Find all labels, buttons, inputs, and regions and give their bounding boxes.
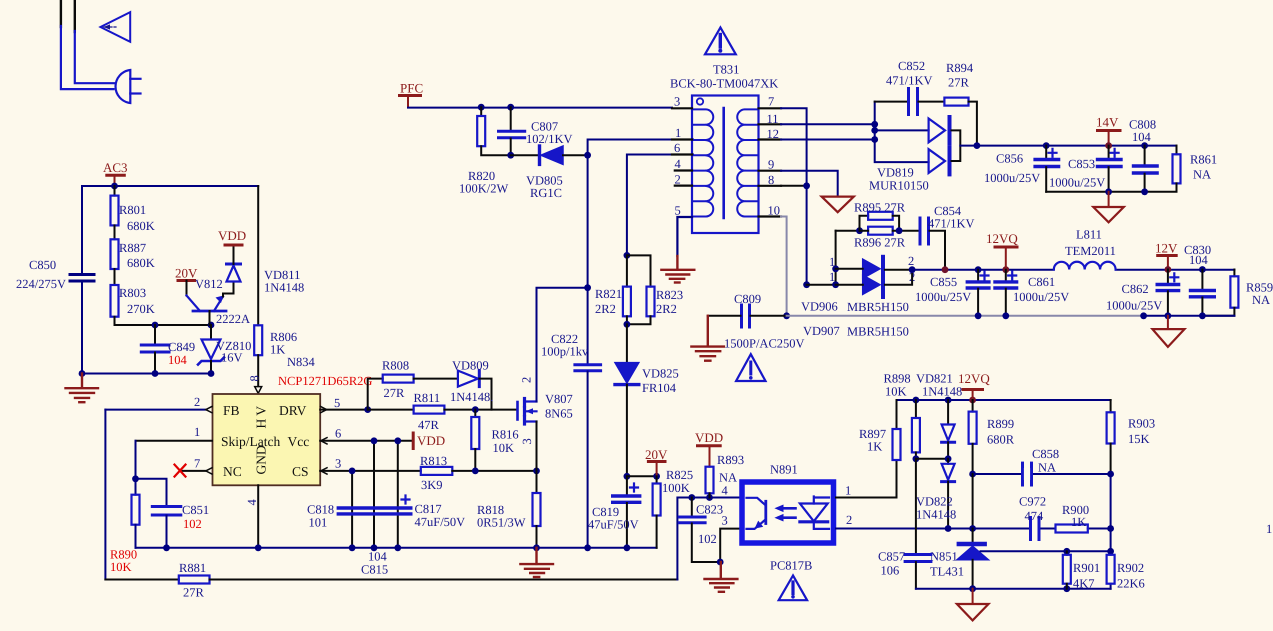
svg-text:1000u/25V: 1000u/25V xyxy=(1013,290,1069,304)
capacitor C972 xyxy=(1029,518,1032,540)
svg-text:C852: C852 xyxy=(898,59,925,73)
svg-text:R902: R902 xyxy=(1117,561,1144,575)
opto transistor xyxy=(747,498,766,505)
svg-text:2: 2 xyxy=(846,513,852,527)
ground 14V rail (triangle) xyxy=(1108,192,1110,207)
wire 12VQ top rail xyxy=(897,399,1111,401)
svg-text:8: 8 xyxy=(248,375,262,381)
node C849 top xyxy=(152,322,159,329)
svg-text:2R2: 2R2 xyxy=(656,302,677,316)
svg-text:Vcc: Vcc xyxy=(288,434,310,449)
resistor R806 xyxy=(254,325,262,355)
capacitor C818 column xyxy=(351,471,353,548)
capacitor C809 xyxy=(740,305,743,327)
opto light arrows xyxy=(779,507,796,510)
pin 5 stub to ground xyxy=(677,217,692,256)
svg-text:680R: 680R xyxy=(987,433,1015,447)
wire V807 drain xyxy=(537,288,588,402)
shared capacitor plates C818/C815/C817 xyxy=(338,506,411,509)
resistor R881 xyxy=(105,579,178,581)
svg-text:2: 2 xyxy=(908,254,914,268)
pin 10 stub xyxy=(759,215,782,217)
svg-text:VD821: VD821 xyxy=(916,372,953,386)
opto LED xyxy=(800,504,828,522)
transistor V812 xyxy=(193,310,226,313)
svg-text:GND: GND xyxy=(254,445,269,474)
wire bottom GND rail xyxy=(136,547,657,549)
svg-text:N891: N891 xyxy=(770,463,798,477)
svg-text:DRV: DRV xyxy=(279,403,307,418)
wire R801-R887 xyxy=(114,225,116,239)
svg-text:47uF/50V: 47uF/50V xyxy=(415,515,466,529)
svg-text:C972: C972 xyxy=(1019,495,1046,509)
capacitor C849 xyxy=(154,325,156,344)
svg-text:2: 2 xyxy=(520,377,534,383)
svg-text:R898: R898 xyxy=(884,372,911,386)
wire opto pin 1 to R897 xyxy=(836,460,897,498)
svg-text:V807: V807 xyxy=(545,392,573,406)
svg-text:1000u/25V: 1000u/25V xyxy=(984,171,1040,185)
wire R806 to pin 8 xyxy=(257,355,259,386)
svg-text:104: 104 xyxy=(1189,253,1209,267)
resistor R808 branch xyxy=(368,379,383,410)
wire R881 riser to pin4 row xyxy=(677,498,739,580)
capacitor C819 xyxy=(626,476,628,495)
svg-text:12VQ: 12VQ xyxy=(958,371,990,386)
wire R803 bottom row xyxy=(115,317,212,325)
svg-text:12VQ: 12VQ xyxy=(986,231,1018,246)
capacitor C850 xyxy=(70,273,94,276)
wire AC3 top rail xyxy=(82,185,258,187)
svg-text:2R2: 2R2 xyxy=(595,302,616,316)
plug P1 xyxy=(116,70,131,103)
diode VD809 xyxy=(458,371,478,387)
pin 11 stub xyxy=(759,123,782,125)
svg-text:L811: L811 xyxy=(1076,228,1102,242)
svg-text:27R: 27R xyxy=(948,76,970,90)
ground 12V return (triangle) xyxy=(1167,316,1169,329)
svg-text:V812: V812 xyxy=(195,277,223,291)
zener VZ810 xyxy=(210,325,212,339)
resistor R823 xyxy=(627,255,651,286)
svg-text:100K/2W: 100K/2W xyxy=(459,182,509,196)
svg-text:680K: 680K xyxy=(127,219,155,233)
svg-text:8N65: 8N65 xyxy=(545,407,573,421)
warning triangle above T831 xyxy=(705,28,736,55)
svg-text:R861: R861 xyxy=(1190,153,1217,167)
ground pin 5 xyxy=(661,256,694,283)
svg-text:C850: C850 xyxy=(29,258,56,272)
resistor R890 xyxy=(135,479,137,495)
TL431 N851 xyxy=(972,529,974,542)
svg-text:104: 104 xyxy=(1132,130,1152,144)
capacitor C854 xyxy=(919,218,922,244)
svg-text:HV: HV xyxy=(254,403,269,429)
svg-text:R803: R803 xyxy=(119,286,146,300)
node 20V row left xyxy=(624,473,631,480)
capacitor C858 xyxy=(1021,463,1024,485)
svg-text:1N4148: 1N4148 xyxy=(916,508,956,522)
svg-text:CS: CS xyxy=(292,464,309,479)
diode VD805 xyxy=(511,154,538,156)
wire opto pin 2 row xyxy=(836,528,1111,530)
resistor R903 xyxy=(1110,400,1112,412)
svg-text:R899: R899 xyxy=(987,417,1014,431)
svg-text:C815: C815 xyxy=(361,563,388,577)
wire tie column to lower anode xyxy=(875,102,929,163)
node VD805 junction xyxy=(584,152,591,159)
svg-text:VD822: VD822 xyxy=(916,495,953,509)
wire anode tie column xyxy=(835,231,837,285)
wire pin 7 down to pin 8 xyxy=(781,108,807,284)
svg-text:1000u/25V: 1000u/25V xyxy=(1049,176,1105,190)
svg-text:12V: 12V xyxy=(1155,241,1178,256)
svg-text:1: 1 xyxy=(675,126,681,140)
pin 1 stub xyxy=(672,138,692,140)
capacitor C823 xyxy=(691,498,693,517)
svg-text:104: 104 xyxy=(368,550,388,564)
optocoupler N891 box xyxy=(742,482,834,543)
core xyxy=(722,108,725,218)
svg-text:7: 7 xyxy=(768,95,774,109)
svg-text:MUR10150: MUR10150 xyxy=(869,179,929,193)
svg-text:471/1KV: 471/1KV xyxy=(928,217,975,231)
svg-text:FR104: FR104 xyxy=(642,381,677,395)
svg-text:R808: R808 xyxy=(382,359,409,373)
svg-text:NA: NA xyxy=(1252,293,1270,307)
svg-text:10: 10 xyxy=(768,204,781,218)
wire pin 6 column xyxy=(627,155,693,256)
svg-text:R896 27R: R896 27R xyxy=(854,236,906,250)
svg-text:MBR5H150: MBR5H150 xyxy=(847,325,909,339)
svg-text:14V: 14V xyxy=(1096,115,1119,130)
svg-text:1K: 1K xyxy=(270,343,285,357)
capacitor C815 column xyxy=(373,441,375,548)
resistor R895 xyxy=(836,230,860,232)
capacitor C862 xyxy=(1167,270,1169,284)
wire mains line 2 blue xyxy=(75,31,115,83)
wire FB loop left column xyxy=(104,410,106,580)
svg-text:16V: 16V xyxy=(221,351,243,365)
diode VD825 xyxy=(626,324,628,362)
svg-text:C809: C809 xyxy=(734,292,761,306)
svg-text:VD819: VD819 xyxy=(877,166,914,180)
capacitor C817 column xyxy=(397,441,399,548)
svg-text:NC: NC xyxy=(223,464,242,479)
svg-text:BCK-80-TM0047XK: BCK-80-TM0047XK xyxy=(670,77,778,91)
wire pin 12 xyxy=(781,139,875,141)
svg-text:2: 2 xyxy=(194,395,200,409)
pin 8 stub xyxy=(759,185,782,187)
svg-text:6: 6 xyxy=(335,427,341,441)
svg-text:270K: 270K xyxy=(127,302,155,316)
svg-text:1500P/AC250V: 1500P/AC250V xyxy=(724,337,805,351)
svg-text:R801: R801 xyxy=(119,203,146,217)
svg-text:3K9: 3K9 xyxy=(421,478,443,492)
wire right column xyxy=(1110,474,1112,589)
pin 3 CS wire xyxy=(320,470,421,472)
wire junction up to pin 1 xyxy=(588,140,693,156)
svg-text:T831: T831 xyxy=(713,63,739,77)
svg-text:100p/1kv: 100p/1kv xyxy=(541,345,589,359)
svg-text:C817: C817 xyxy=(415,502,442,516)
svg-text:102: 102 xyxy=(698,532,717,546)
resistor R887 xyxy=(111,239,119,269)
warning triangle near C809 xyxy=(736,354,765,381)
svg-text:R895 27R: R895 27R xyxy=(854,201,906,215)
svg-text:9: 9 xyxy=(768,158,774,172)
svg-text:12: 12 xyxy=(767,127,780,141)
resistor R821 xyxy=(626,255,628,286)
ground C823 xyxy=(705,562,738,592)
svg-text:R887: R887 xyxy=(119,241,146,255)
resistor R893 xyxy=(706,467,714,494)
svg-text:10K: 10K xyxy=(110,560,132,574)
wire PFC rail to pin 3 xyxy=(408,107,672,109)
svg-text:R821: R821 xyxy=(595,287,622,301)
wire R898 to diode node xyxy=(916,458,948,460)
node R816 top xyxy=(472,406,479,413)
wire AC3 bottom rail xyxy=(82,373,211,375)
svg-text:102/1KV: 102/1KV xyxy=(526,132,573,146)
svg-text:NA: NA xyxy=(1038,461,1056,475)
inductor L811 xyxy=(1054,262,1116,270)
svg-text:4: 4 xyxy=(245,499,259,506)
svg-text:102: 102 xyxy=(183,517,202,531)
svg-text:FB: FB xyxy=(223,403,240,418)
pin 4 stub xyxy=(675,169,692,171)
wire pin 10 column xyxy=(781,217,787,316)
ground below AC3 rail xyxy=(66,374,99,403)
svg-text:15K: 15K xyxy=(1128,432,1150,446)
svg-text:VD825: VD825 xyxy=(642,367,679,381)
svg-text:MBR5H150: MBR5H150 xyxy=(847,300,909,314)
wire to C851 xyxy=(136,479,167,506)
pin 7 NC wire with red X xyxy=(180,470,206,472)
svg-text:1: 1 xyxy=(1266,522,1272,536)
svg-text:NCP1271D65R2G: NCP1271D65R2G xyxy=(278,374,372,388)
svg-text:27R: 27R xyxy=(183,586,205,600)
resistor R899 xyxy=(972,400,974,412)
node DRV xyxy=(364,406,371,413)
svg-text:3: 3 xyxy=(674,95,680,109)
svg-text:3: 3 xyxy=(520,438,534,444)
pin 3 stub xyxy=(672,107,692,109)
svg-text:VD809: VD809 xyxy=(452,359,489,373)
svg-text:1: 1 xyxy=(845,484,851,498)
pin 7 stub xyxy=(759,107,782,109)
ground main GND rail xyxy=(520,548,553,577)
svg-text:22K6: 22K6 xyxy=(1117,577,1145,591)
svg-text:680K: 680K xyxy=(127,256,155,270)
wire mains line 1 (black top) xyxy=(60,0,62,27)
svg-text:4K7: 4K7 xyxy=(1073,577,1095,591)
svg-text:10K: 10K xyxy=(885,385,907,399)
svg-text:R894: R894 xyxy=(946,61,974,75)
pin 2 FB wire xyxy=(105,409,205,411)
svg-text:R901: R901 xyxy=(1073,561,1100,575)
wire TL431 ref row xyxy=(981,550,1111,552)
svg-text:5: 5 xyxy=(675,204,681,218)
svg-text:11: 11 xyxy=(767,112,779,126)
capacitor C853 xyxy=(1108,146,1110,159)
svg-text:R816: R816 xyxy=(492,428,519,442)
resistor R901 xyxy=(1066,551,1068,555)
svg-text:VDD: VDD xyxy=(695,430,723,445)
svg-text:RG1C: RG1C xyxy=(530,186,562,200)
svg-text:R823: R823 xyxy=(656,288,683,302)
wire C858 row xyxy=(973,473,1111,475)
svg-text:1N4148: 1N4148 xyxy=(264,281,304,295)
svg-text:N851: N851 xyxy=(930,550,958,564)
svg-text:C857: C857 xyxy=(878,550,905,564)
svg-text:NA: NA xyxy=(719,471,737,485)
ground C809 xyxy=(691,316,724,361)
svg-text:2222A: 2222A xyxy=(216,312,250,326)
capacitor C855 xyxy=(977,270,979,281)
svg-text:1N4148.: 1N4148. xyxy=(450,390,493,404)
svg-text:1N4148: 1N4148 xyxy=(922,385,962,399)
svg-text:1: 1 xyxy=(829,255,835,269)
svg-text:1: 1 xyxy=(194,425,200,439)
wire R887-R803 xyxy=(114,269,116,285)
svg-text:R811: R811 xyxy=(414,391,441,405)
pin 1 Skip/Latch wire xyxy=(136,440,213,442)
svg-text:R893: R893 xyxy=(717,453,744,467)
capacitor C808 xyxy=(1144,146,1146,165)
resistor R861 xyxy=(1176,146,1178,155)
capacitor C852 xyxy=(875,101,908,103)
svg-text:PC817B: PC817B xyxy=(770,559,812,573)
svg-text:R881: R881 xyxy=(179,561,206,575)
svg-text:C849: C849 xyxy=(168,340,195,354)
svg-text:R825: R825 xyxy=(666,468,693,482)
svg-text:5: 5 xyxy=(334,396,340,410)
svg-text:47R: 47R xyxy=(418,418,440,432)
wire secondary return row xyxy=(751,315,787,317)
svg-text:TEM2011: TEM2011 xyxy=(1065,244,1116,258)
resistor R902 xyxy=(1107,555,1115,584)
wire mains line 1 blue xyxy=(61,26,114,89)
resistor R813 xyxy=(421,467,453,475)
capacitor C861 xyxy=(1005,270,1007,281)
svg-text:VDD: VDD xyxy=(417,433,445,448)
wire pin 11 xyxy=(781,123,875,125)
svg-text:4: 4 xyxy=(675,157,682,171)
transistor V807 MOSFET xyxy=(516,402,519,420)
wire to upper anode xyxy=(875,129,929,131)
ground pin 9 (triangle) xyxy=(822,197,854,213)
svg-text:R813: R813 xyxy=(420,454,447,468)
svg-text:10K: 10K xyxy=(493,441,515,455)
primary winding xyxy=(693,109,714,216)
svg-text:7: 7 xyxy=(194,457,200,471)
svg-text:224/275V: 224/275V xyxy=(16,277,66,291)
pin 6 stub xyxy=(672,153,692,155)
svg-text:4: 4 xyxy=(722,484,729,498)
capacitor C856 xyxy=(1045,146,1047,159)
resistor R896 xyxy=(868,227,893,235)
svg-text:C851: C851 xyxy=(182,503,209,517)
svg-text:C858: C858 xyxy=(1032,447,1059,461)
svg-text:471/1KV: 471/1KV xyxy=(886,74,933,88)
svg-text:R903: R903 xyxy=(1128,417,1155,431)
svg-text:1K: 1K xyxy=(867,440,882,454)
svg-text:100K: 100K xyxy=(662,481,690,495)
wire 12VQ rail xyxy=(912,269,1234,271)
wire 14V rail xyxy=(960,145,1176,147)
wire V807 source xyxy=(536,422,538,494)
svg-text:8: 8 xyxy=(768,173,774,187)
svg-text:20V: 20V xyxy=(645,447,668,462)
svg-text:Skip/Latch: Skip/Latch xyxy=(221,434,280,449)
svg-text:2: 2 xyxy=(675,173,681,187)
svg-text:3: 3 xyxy=(335,457,341,471)
wire left column to C850 xyxy=(81,186,83,274)
svg-text:47uF/50V: 47uF/50V xyxy=(588,518,639,532)
diode VD907 xyxy=(863,275,880,294)
diode VD819 lower xyxy=(929,149,945,173)
svg-text:6: 6 xyxy=(674,141,680,155)
svg-text:474: 474 xyxy=(1025,509,1045,523)
net label VDD (Vcc pin) xyxy=(412,433,415,449)
resistor R811 xyxy=(368,409,414,411)
diode VD906 xyxy=(863,259,880,278)
probe triangle symbol xyxy=(101,12,131,42)
net label VDD (VD811) xyxy=(233,246,235,264)
svg-text:C818: C818 xyxy=(307,503,334,517)
svg-text:C861: C861 xyxy=(1028,275,1055,289)
svg-text:104: 104 xyxy=(168,353,188,367)
capacitor C830 xyxy=(1201,270,1203,290)
wire mains line 2 (black top) xyxy=(74,0,76,32)
svg-text:C862: C862 xyxy=(1122,282,1149,296)
svg-text:N834: N834 xyxy=(287,355,316,369)
pin 2 stub xyxy=(675,185,692,187)
svg-text:TL431: TL431 xyxy=(930,565,964,579)
pin 4 GND wire xyxy=(257,485,259,548)
svg-text:1K: 1K xyxy=(1071,515,1086,529)
wire Skip column xyxy=(135,441,137,479)
node V812 base / VZ810 xyxy=(208,322,215,329)
svg-text:VD907: VD907 xyxy=(803,324,840,338)
wire R899 to TL431 xyxy=(972,474,974,529)
diode VD819 upper xyxy=(929,119,945,143)
capacitor C857 xyxy=(915,459,917,554)
resistor R803 xyxy=(111,285,119,317)
resistor R825 xyxy=(656,476,658,483)
wire pin 9 to ground xyxy=(781,171,838,196)
svg-text:NA: NA xyxy=(1193,168,1211,182)
resistor R859 xyxy=(1233,270,1235,277)
pin 12 stub xyxy=(759,138,782,140)
capacitor C822 xyxy=(584,284,591,291)
pin 9 stub xyxy=(759,170,782,172)
svg-text:1000u/25V: 1000u/25V xyxy=(915,290,971,304)
svg-text:101: 101 xyxy=(309,516,328,530)
pin 5 DRV wire xyxy=(320,409,368,411)
resistor R897 xyxy=(896,400,898,429)
node rectifier input xyxy=(803,281,810,288)
svg-text:C823: C823 xyxy=(696,503,723,517)
node pins 11/12 tie xyxy=(871,121,878,128)
diode VD821 xyxy=(947,400,949,425)
wire HV column from AC3 rail xyxy=(257,186,259,325)
node R890/C851 xyxy=(132,475,139,482)
wire cathode tie xyxy=(885,270,912,285)
warning triangle PC817B xyxy=(779,576,807,601)
pin 6 Vcc wire to VDD xyxy=(320,440,413,442)
